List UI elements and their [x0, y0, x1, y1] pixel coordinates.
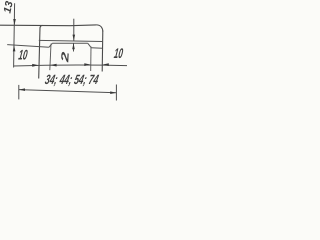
svg-text:2: 2 — [59, 51, 72, 64]
svg-text:10: 10 — [113, 45, 124, 61]
dimension line 13 vertical — [14, 3, 15, 67]
inner top line — [39, 40, 103, 41]
overall width dimension line — [19, 90, 117, 93]
outer profile top edge with extension line to left — [0, 25, 103, 32]
outer left edge — [39, 28, 40, 79]
svg-text:13: 13 — [1, 0, 15, 14]
center plateau line — [52, 42, 88, 44]
svg-text:10: 10 — [18, 47, 29, 63]
arrow right tip at left outer edge — [32, 64, 39, 67]
left shelf with extension to left — [7, 45, 49, 48]
arrow up tip at plateau — [72, 43, 75, 49]
dimension 2 upper line — [73, 19, 75, 41]
left chamfer — [49, 43, 52, 47]
arrow up at shelf extension — [13, 45, 16, 51]
right shelf — [91, 47, 102, 50]
overall width dimension: left extension tick — [18, 85, 20, 100]
right inner extension line — [90, 47, 92, 72]
top-left corner — [40, 25, 43, 28]
bottom dimension line (10 / 34;44;54;74 / 10) — [14, 65, 127, 66]
arrow left tip at left tick — [19, 88, 25, 91]
arrow left tip at right outer edge — [102, 63, 109, 66]
arrow down tip at inner top line — [73, 35, 76, 41]
outer right edge — [101, 31, 104, 72]
arrow down at top edge — [13, 19, 16, 25]
arrow right tip at right inner line — [84, 63, 91, 66]
arrow left tip at left inner line — [50, 64, 57, 67]
arrow right tip at right tick — [110, 91, 116, 94]
dimension 2 lower line — [73, 43, 75, 51]
right chamfer — [88, 43, 92, 48]
svg-text:34; 44; 54; 74: 34; 44; 54; 74 — [44, 72, 100, 87]
overall width dimension: right extension tick — [115, 85, 117, 101]
left inner extension line — [50, 44, 51, 71]
